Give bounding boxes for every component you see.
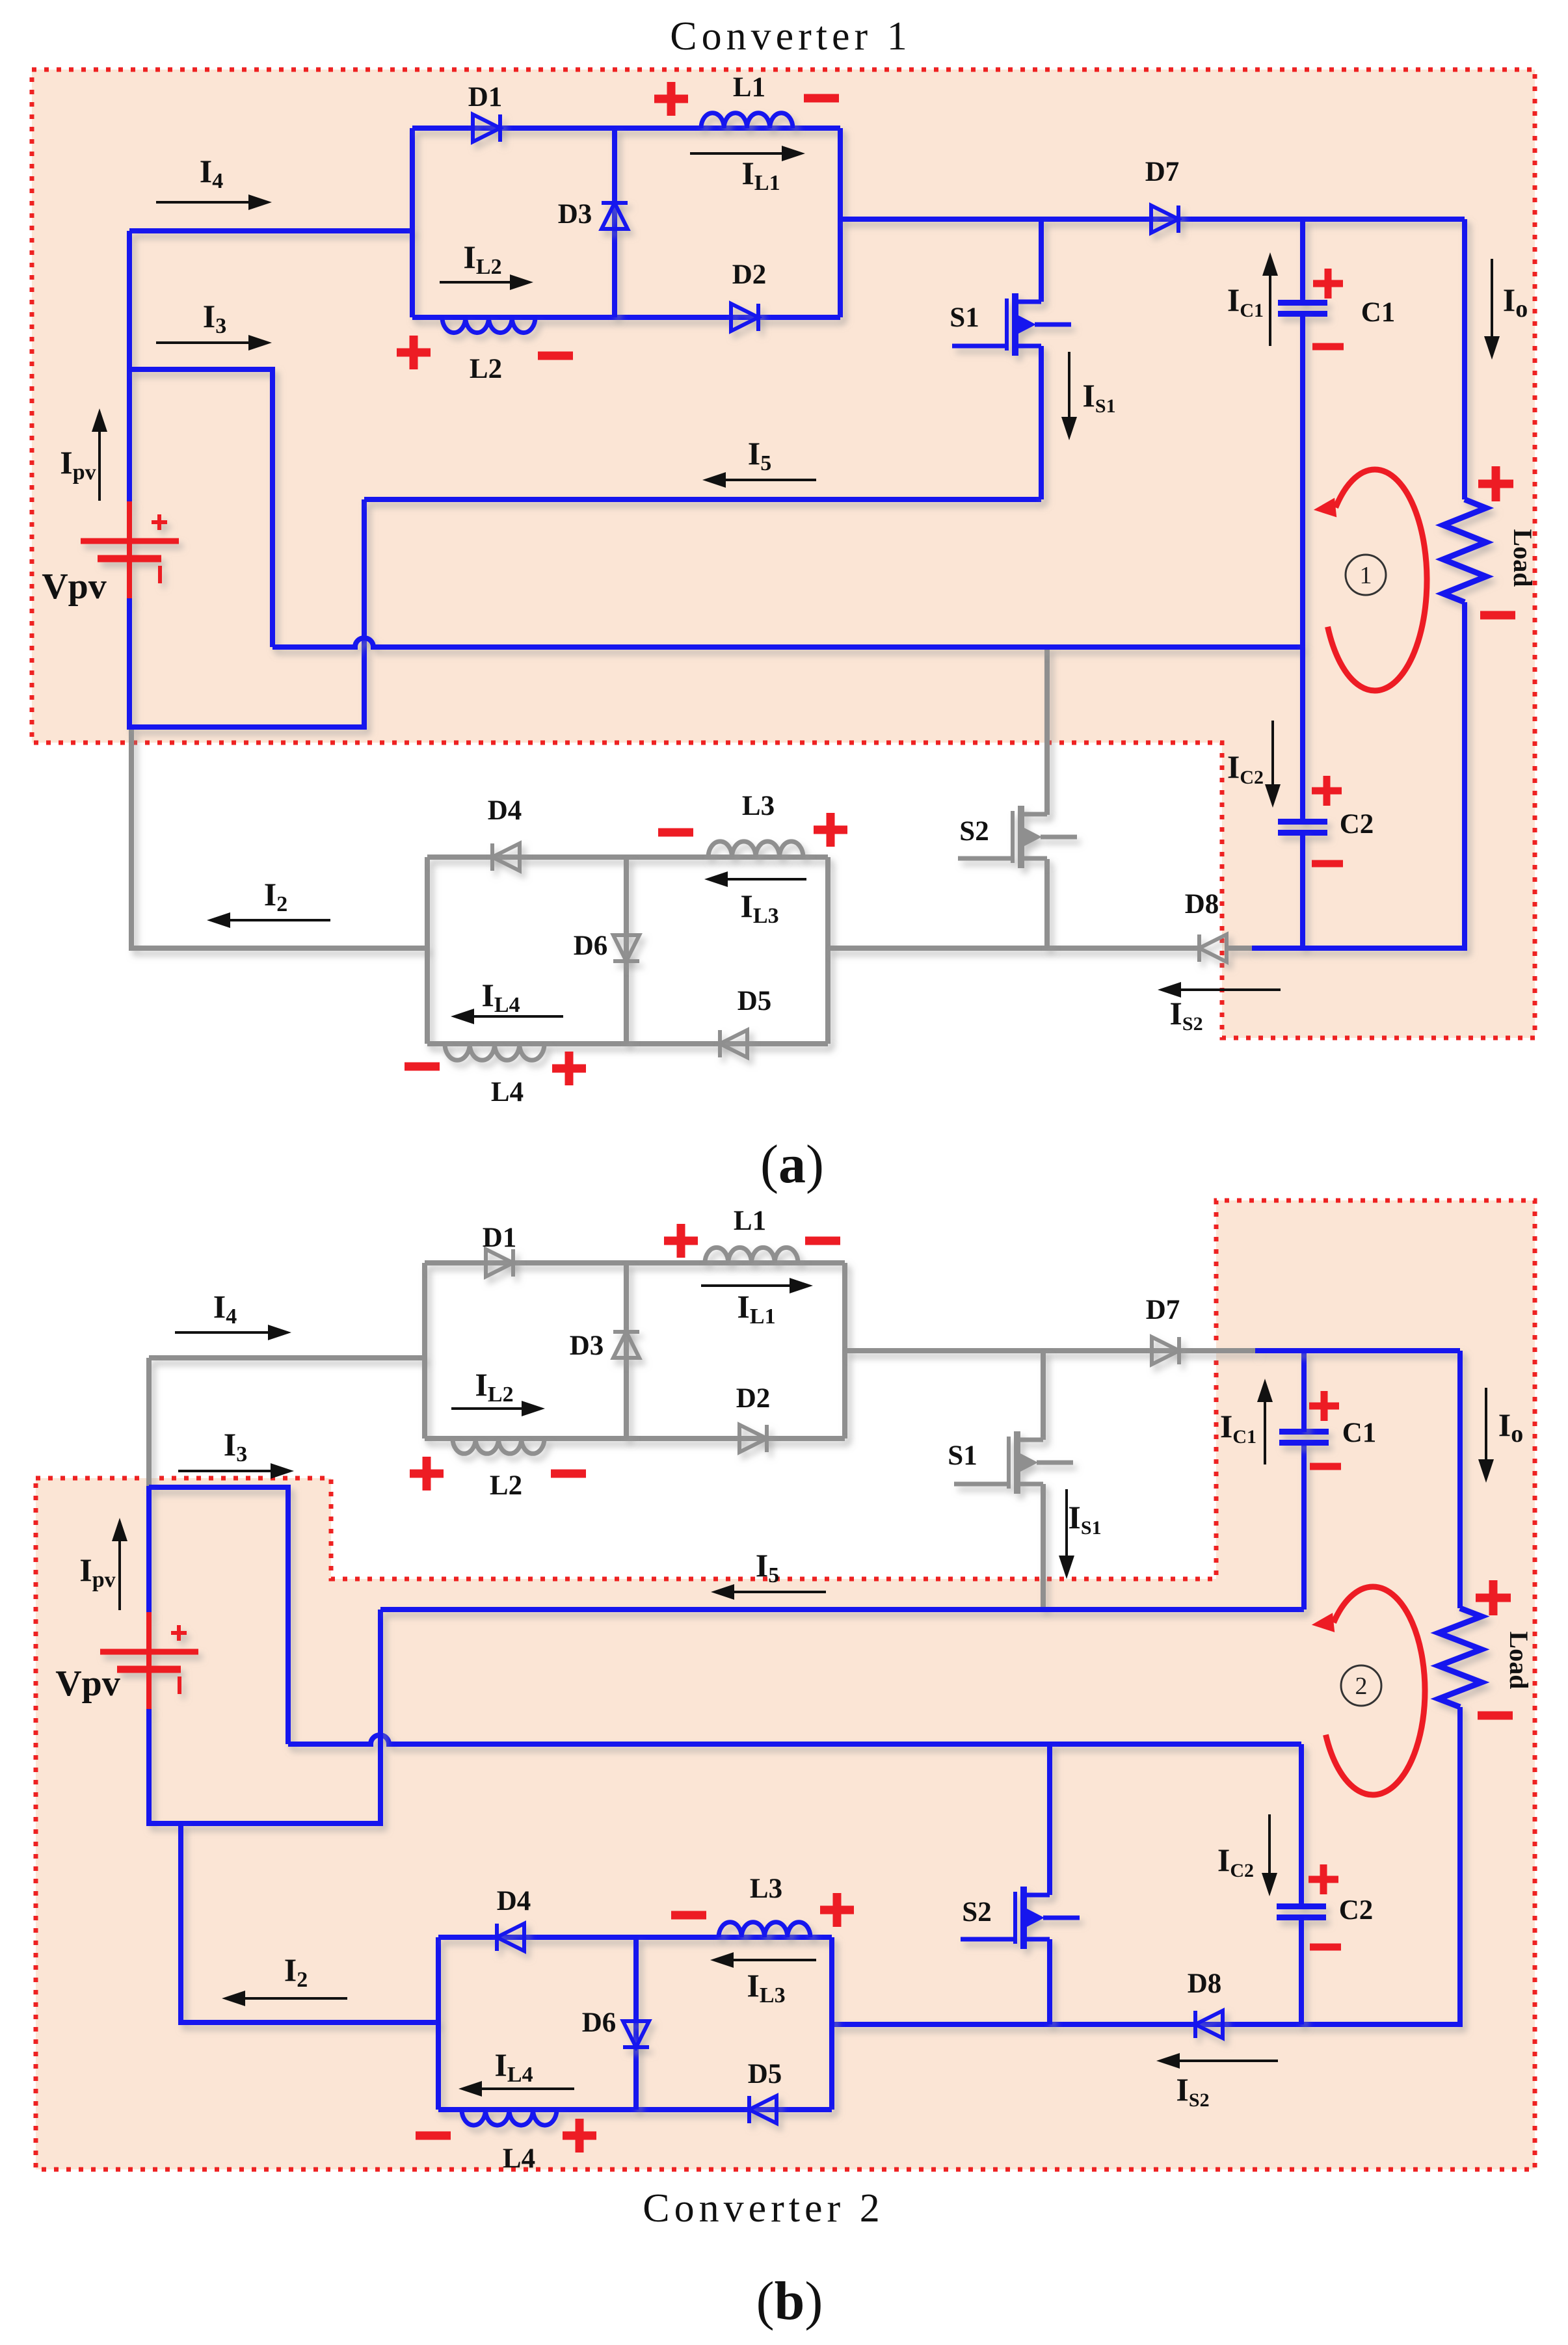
arrow IL1 (b)	[701, 1278, 813, 1293]
svg-text:C1: C1	[1361, 297, 1396, 328]
minus L4 (b)	[416, 2132, 451, 2140]
wire I4 feed (b)	[149, 1355, 425, 1360]
svg-text:IS1: IS1	[1068, 1499, 1101, 1539]
svg-text:D5: D5	[748, 2059, 782, 2089]
arrow IL4 (a)	[451, 1009, 563, 1024]
wire I3 branch (a)	[129, 369, 272, 647]
arrow Ic1 (b)	[1257, 1379, 1273, 1464]
arrow I5 (b)	[711, 1584, 826, 1600]
arrow I5 (a)	[702, 472, 816, 488]
wire upper bridge bottom (a)	[412, 315, 840, 320]
wire D6 column (b)	[633, 1937, 639, 2110]
wire C1 top lead (b)	[1301, 1351, 1307, 1432]
inductor L2	[442, 317, 535, 333]
source Vpv battery (b)	[100, 1612, 198, 1710]
svg-text:Converter 2: Converter 2	[643, 2186, 884, 2231]
svg-text:L4: L4	[491, 1077, 524, 1107]
arrow I2 (b)	[222, 1991, 347, 2006]
wire S1 drain (a)	[1039, 219, 1044, 302]
svg-text:D7: D7	[1146, 1295, 1180, 1325]
minus C2 (a)	[1312, 860, 1343, 868]
svg-text:2: 2	[1355, 1673, 1368, 1700]
svg-text:S1: S1	[950, 302, 979, 333]
svg-text:L4: L4	[503, 2143, 535, 2174]
svg-text:S2: S2	[962, 1897, 991, 1928]
svg-text:D4: D4	[497, 1886, 531, 1916]
wire upper bridge left vertical (a)	[410, 128, 415, 317]
wire output to D7 (a)	[840, 217, 1465, 222]
minus L3 (b)	[671, 1911, 706, 1920]
wire S2 drain (b)	[1047, 1744, 1052, 1895]
svg-text:D2: D2	[736, 1383, 771, 1414]
capacitor C2	[1278, 822, 1327, 833]
svg-text:Converter 1: Converter 1	[670, 14, 911, 59]
wire node line C2 (b)	[288, 1735, 1301, 1744]
wire S1 drain (b)	[1041, 1351, 1046, 1440]
diode D6	[613, 935, 639, 961]
minus L4 (a)	[405, 1063, 440, 1071]
resistor Load (b)	[1439, 1608, 1482, 1707]
arrow I3 (b)	[178, 1463, 294, 1479]
diode D4	[492, 843, 520, 871]
arrow Is2 (b)	[1156, 2053, 1278, 2069]
arrow IL3 (a)	[704, 871, 806, 887]
minus C1 (a)	[1312, 343, 1344, 351]
arrow I2 (a)	[207, 912, 330, 928]
svg-text:D6: D6	[574, 931, 608, 961]
inductor L1 (b)	[705, 1247, 798, 1263]
wire C2 bottom lead (b)	[1299, 1917, 1304, 2024]
diode D3	[602, 203, 628, 229]
svg-text:L1: L1	[734, 1206, 766, 1236]
svg-text:I3: I3	[224, 1426, 247, 1466]
diode D1	[473, 114, 500, 142]
inductor L2 (b)	[453, 1438, 544, 1453]
arrow Ipv (a)	[92, 408, 107, 501]
svg-text:D6: D6	[582, 2007, 617, 2038]
wire battery minus column (b)	[149, 1610, 380, 1823]
svg-text:D3: D3	[558, 199, 592, 230]
minus L1 (a)	[804, 94, 839, 103]
svg-text:D1: D1	[468, 82, 503, 113]
svg-text:D1: D1	[483, 1223, 517, 1253]
wire S2 drain (a)	[1044, 647, 1050, 815]
diode D5	[720, 1030, 747, 1057]
wire upper bridge right vertical (b)	[842, 1263, 847, 1438]
loop node 1	[1346, 555, 1386, 595]
svg-text:D5: D5	[737, 986, 772, 1016]
svg-text:IL4: IL4	[481, 977, 520, 1017]
plus L4 (b)	[563, 2119, 596, 2153]
wire lower bridge bottom (b)	[438, 2107, 832, 2112]
svg-text:Load: Load	[1504, 1632, 1534, 1689]
wire upper bridge bottom (b)	[425, 1436, 845, 1441]
wire S1 source (a)	[1039, 346, 1044, 499]
svg-text:C2: C2	[1340, 809, 1374, 840]
wire battery column (b)	[146, 1487, 152, 1613]
minus C2 (b)	[1310, 1944, 1341, 1951]
wire output to D7 (b)	[845, 1348, 1255, 1353]
wire D6 column (a)	[624, 857, 629, 1044]
wire C2 top lead (a)	[1300, 647, 1305, 822]
inductor L3 (b)	[719, 1922, 810, 1937]
diode D7	[1151, 205, 1178, 233]
svg-text:S2: S2	[959, 816, 989, 847]
svg-text:Vpv: Vpv	[55, 1663, 120, 1704]
plus L2 (b)	[410, 1457, 444, 1490]
diode D8 (b)	[1195, 2011, 1223, 2038]
plus load (a)	[1478, 466, 1513, 501]
capacitor C2 (b)	[1277, 1907, 1326, 1918]
svg-text:IS2: IS2	[1169, 995, 1203, 1035]
plus C1 (b)	[1309, 1391, 1339, 1421]
arrow IL3 (b)	[710, 1952, 816, 1968]
wire lower bridge right vertical (b)	[829, 1937, 834, 2110]
svg-text:(b): (b)	[756, 2271, 823, 2331]
svg-text:(a): (a)	[760, 1134, 824, 1195]
wire I2 return vertical (a)	[131, 730, 427, 948]
svg-text:Load: Load	[1508, 529, 1537, 587]
wire battery column (a)	[127, 231, 132, 503]
plus L2 (a)	[397, 336, 431, 369]
minus load (b)	[1478, 1712, 1513, 1720]
diode D5 (b)	[749, 2096, 777, 2123]
minus load (a)	[1480, 611, 1515, 620]
arrow IL2 (a)	[440, 274, 533, 290]
arrow Ipv (b)	[112, 1518, 127, 1610]
inductor L4 (b)	[462, 2110, 557, 2125]
arrow Ic2 (a)	[1265, 721, 1281, 808]
plus L4 (a)	[552, 1052, 586, 1085]
wire D3 column (a)	[612, 128, 617, 317]
wire D7 output blue (b)	[1255, 1348, 1460, 1353]
svg-text:D3: D3	[570, 1331, 604, 1361]
svg-text:1: 1	[1360, 562, 1372, 589]
wire upper bridge top (a)	[412, 126, 840, 131]
arrow I3 (a)	[156, 335, 272, 351]
loop arrow 1	[1314, 470, 1427, 691]
wire lower bridge top (a)	[427, 855, 828, 860]
arrow Is2 (a)	[1158, 982, 1281, 998]
loop node 2	[1341, 1665, 1381, 1706]
wire I5 return (a)	[364, 497, 1041, 502]
wire lower bridge left vertical (b)	[436, 1937, 441, 2110]
plus L1 (a)	[654, 82, 688, 116]
transistor S2 (a)	[958, 806, 1077, 868]
arrow Io (a)	[1484, 259, 1500, 360]
wire upper bridge top (b)	[425, 1260, 845, 1265]
wire lower bridge left vertical (a)	[425, 857, 430, 1044]
svg-text:IL2: IL2	[475, 1366, 513, 1407]
svg-text:L2: L2	[490, 1470, 522, 1501]
svg-text:Vpv: Vpv	[42, 566, 107, 607]
plus L3 (a)	[814, 813, 847, 847]
minus C1 (b)	[1310, 1463, 1341, 1470]
wire S1 source (b)	[1041, 1484, 1046, 1610]
wire upper bridge left vertical (b)	[422, 1263, 427, 1438]
wire C1 bottom lead (a)	[1300, 313, 1305, 647]
source Vpv battery (a)	[81, 501, 179, 600]
transistor S1 (b)	[954, 1431, 1073, 1494]
wire lower bridge top (b)	[438, 1935, 832, 1940]
diode D2 (b)	[739, 1425, 767, 1452]
plus C1 (a)	[1313, 269, 1343, 298]
diode D1 (b)	[486, 1249, 513, 1277]
svg-text:IL1: IL1	[737, 1288, 775, 1329]
plus load (b)	[1476, 1580, 1511, 1615]
minus L1 (b)	[805, 1237, 840, 1245]
loop arrow 2	[1312, 1587, 1425, 1795]
wire Io drop to load (a)	[1462, 219, 1467, 499]
arrow IL1 (a)	[690, 146, 805, 161]
svg-text:C1: C1	[1342, 1418, 1377, 1448]
arrow Ic2 (b)	[1262, 1814, 1277, 1896]
wire C1 top lead (a)	[1300, 219, 1305, 303]
arrow I4 (a)	[156, 194, 272, 210]
svg-text:D8: D8	[1188, 1968, 1222, 1999]
transistor S2 (b)	[961, 1887, 1080, 1949]
svg-text:L2: L2	[470, 354, 502, 384]
inductor L4	[445, 1044, 544, 1060]
diode D7 (b)	[1152, 1337, 1179, 1364]
capacitor C1 (b)	[1279, 1432, 1329, 1443]
diode D6 (b)	[623, 2021, 649, 2047]
transistor S1 (a)	[952, 293, 1071, 356]
svg-text:D4: D4	[488, 795, 522, 826]
wire C2 bottom lead (a)	[1300, 832, 1305, 948]
wire upper bridge right vertical (a)	[838, 128, 843, 317]
wire lower rail to D8 (a)	[828, 946, 1199, 951]
svg-text:C2: C2	[1339, 1895, 1374, 1926]
svg-text:D2: D2	[732, 259, 767, 290]
svg-text:I2: I2	[264, 876, 287, 916]
minus L2 (b)	[551, 1470, 586, 1478]
svg-text:D7: D7	[1145, 157, 1180, 187]
wire battery minus column (a)	[129, 499, 364, 727]
diode D4 (b)	[497, 1924, 524, 1951]
wire C1 bottom lead (b)	[1301, 1442, 1307, 1610]
wire load bottom (a)	[1252, 602, 1465, 948]
inductor L1	[701, 113, 793, 128]
arrow IL2 (b)	[451, 1401, 545, 1416]
capacitor C1	[1278, 303, 1327, 314]
wire lower bridge bottom (a)	[427, 1041, 828, 1046]
inductor L3	[708, 841, 803, 857]
svg-text:I4: I4	[213, 1288, 237, 1329]
svg-text:S1: S1	[948, 1440, 977, 1471]
svg-text:IL3: IL3	[740, 888, 778, 928]
wire I2 return vertical (b)	[181, 1823, 438, 2022]
svg-text:L1: L1	[733, 72, 765, 103]
wire I5 return (b)	[380, 1607, 1304, 1612]
plus C2 (b)	[1309, 1864, 1338, 1894]
plus L1 (b)	[664, 1224, 698, 1258]
arrow Is1 (b)	[1059, 1489, 1074, 1579]
svg-text:I5: I5	[756, 1547, 779, 1587]
wire Io drop to load (b)	[1457, 1351, 1463, 1608]
wire I3 branch (b)	[149, 1486, 288, 1744]
diode D3 (b)	[613, 1332, 639, 1358]
wire C2 top lead (b)	[1299, 1744, 1304, 1907]
wire I4 column segment (b)	[146, 1358, 152, 1486]
wire I4 feed (a)	[129, 228, 412, 233]
plus C2 (a)	[1312, 776, 1342, 806]
wire S2 source (a)	[1044, 859, 1050, 948]
svg-text:D8: D8	[1185, 889, 1219, 920]
minus L2 (a)	[538, 352, 573, 360]
diode D8	[1199, 934, 1227, 962]
wire S2 source (b)	[1047, 1939, 1052, 2024]
minus L3 (a)	[658, 828, 693, 837]
wire node line C1-C2 (a)	[272, 638, 1303, 647]
shaded region converter 2 (panel b)	[36, 1200, 1535, 2169]
wire load bottom (b)	[832, 1707, 1460, 2024]
arrow I4 (b)	[175, 1325, 291, 1340]
arrow Io (b)	[1478, 1388, 1494, 1483]
shaded region converter 1 (panel a)	[32, 70, 1535, 1038]
plus L3 (b)	[820, 1893, 854, 1927]
diode D2	[731, 304, 758, 331]
svg-text:L3: L3	[742, 791, 775, 821]
arrow Ic1 (a)	[1262, 252, 1278, 346]
wire D3 column (b)	[624, 1263, 629, 1438]
svg-text:L3: L3	[750, 1874, 782, 1904]
wire lower bridge right vertical (a)	[825, 857, 831, 1044]
arrow IL4 (b)	[458, 2081, 574, 2097]
wire D8 stub (a)	[1227, 946, 1253, 951]
arrow Is1 (a)	[1061, 352, 1077, 440]
resistor Load (a)	[1443, 499, 1486, 602]
